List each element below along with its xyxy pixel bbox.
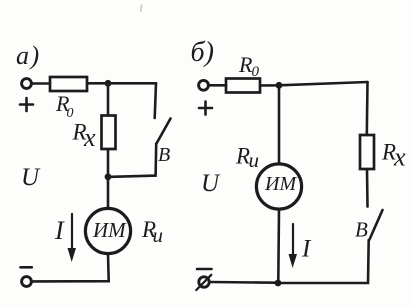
svg-text:ИМ: ИМ <box>92 218 127 242</box>
current arrow I (circuit a) <box>71 214 73 253</box>
wire node to RX (circuit a) <box>107 83 110 115</box>
wire RX to switch contact (circuit b) <box>366 169 369 207</box>
node bottom junction (circuit b) <box>275 280 282 287</box>
svg-text:и: и <box>153 223 164 247</box>
minus bar (circuit b) <box>197 268 212 271</box>
svg-text:и: и <box>249 148 260 172</box>
svg-text:В: В <box>158 144 170 166</box>
wire switch to bottom corner (circuit b) <box>281 240 369 283</box>
wire terminal to R0 (circuit b) <box>209 84 227 87</box>
wire terminal to R0 (circuit a) <box>32 82 51 85</box>
svg-text:х: х <box>393 143 406 172</box>
node top junction (circuit a) <box>105 80 112 87</box>
terminal plus (circuit a) <box>22 79 32 89</box>
wire switch to bottom corner (circuit a) <box>111 144 156 177</box>
resistor R0 (circuit a) <box>50 77 87 91</box>
minus bar (circuit a) <box>21 266 32 269</box>
wire meter to bottom terminal (circuit a) <box>33 254 109 282</box>
svg-text:U: U <box>201 170 221 197</box>
wire junction to bottom terminal (circuit b) <box>211 281 275 284</box>
svg-text:0: 0 <box>252 64 260 80</box>
svg-text:а): а) <box>16 41 41 70</box>
wire right corner down to RX (circuit b) <box>365 82 368 135</box>
svg-text:х: х <box>83 123 96 152</box>
svg-text:I: I <box>301 236 312 263</box>
wire R0 to right corner (circuit b) <box>260 82 368 86</box>
meter IM (circuit b) <box>256 164 301 209</box>
node bottom junction (circuit a) <box>105 173 112 180</box>
plus sign (circuit a) <box>20 98 33 111</box>
switch blade B (circuit a) <box>157 119 171 144</box>
resistor R0 (circuit b) <box>226 79 260 93</box>
resistor RX (circuit a) <box>102 116 116 150</box>
label RX (circuit a) <box>72 120 97 153</box>
plus sign (circuit b) <box>199 102 212 115</box>
wire bottom node to meter (circuit a) <box>107 179 110 208</box>
current arrow I (circuit b) <box>292 224 294 259</box>
slash through terminal (circuit b) <box>196 275 211 290</box>
terminal minus (circuit a) <box>22 277 32 287</box>
wire R0 to top node (circuit a) <box>87 82 156 85</box>
label RI (circuit a) <box>141 217 163 247</box>
wire top corner down to switch contact (circuit a) <box>155 83 156 118</box>
terminal plus (circuit b) <box>199 80 209 90</box>
meter IM (circuit a) <box>85 208 130 253</box>
svg-text:ИМ: ИМ <box>264 173 297 195</box>
wire meter to bottom junction (circuit b) <box>277 209 280 280</box>
svg-text:В: В <box>355 218 368 242</box>
switch blade B (circuit b) <box>370 210 383 240</box>
faint scan tick top <box>140 5 143 13</box>
node top junction (circuit b) <box>276 82 283 89</box>
resistor RX (circuit b) <box>360 135 374 169</box>
label R0 (circuit a) <box>55 91 74 121</box>
label RI (circuit b) <box>235 144 259 173</box>
svg-text:I: I <box>54 216 65 245</box>
wire RX to bottom node (circuit a) <box>107 149 110 174</box>
label R0 (circuit b) <box>238 52 260 80</box>
terminal slashed (circuit b) <box>199 277 209 287</box>
svg-text:б): б) <box>191 37 214 68</box>
wire top node down to meter (circuit b) <box>278 88 281 164</box>
svg-text:U: U <box>21 164 41 191</box>
label RX (circuit b) <box>381 140 406 172</box>
